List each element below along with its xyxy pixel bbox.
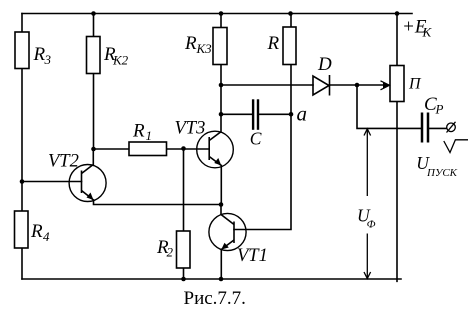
svg-text:К2: К2 <box>112 53 129 68</box>
svg-text:Ф: Ф <box>367 219 376 231</box>
svg-text:2: 2 <box>167 245 174 260</box>
svg-text:Рис.7.7.: Рис.7.7. <box>184 288 246 309</box>
svg-text:3: 3 <box>44 52 52 67</box>
svg-text:VT1: VT1 <box>237 246 268 266</box>
svg-text:P: P <box>435 102 444 117</box>
svg-text:R: R <box>30 221 43 242</box>
svg-text:R: R <box>184 33 197 54</box>
svg-text:4: 4 <box>43 229 50 244</box>
svg-text:D: D <box>317 54 332 75</box>
svg-text:К3: К3 <box>196 41 213 56</box>
svg-text:a: a <box>297 102 308 126</box>
svg-text:П: П <box>408 76 422 93</box>
svg-text:1: 1 <box>146 128 153 143</box>
svg-text:VT3: VT3 <box>175 119 206 139</box>
svg-text:C: C <box>250 129 262 149</box>
svg-text:R: R <box>267 33 280 54</box>
svg-text:ПУСК: ПУСК <box>426 167 458 179</box>
svg-text:R: R <box>132 121 145 142</box>
svg-text:К: К <box>422 25 433 40</box>
svg-text:VT2: VT2 <box>48 152 79 172</box>
